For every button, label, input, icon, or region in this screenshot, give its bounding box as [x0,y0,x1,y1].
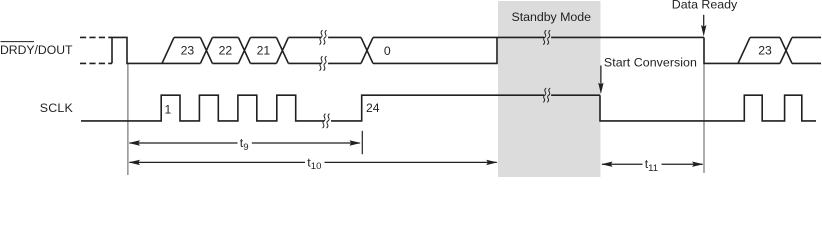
svg-text:t9: t9 [240,136,249,153]
standby mode shaded region [498,1,601,177]
data cell boundary X (23/22 second frame) [780,37,792,63]
svg-text:t10: t10 [307,155,321,172]
data cell 22 [212,37,238,63]
DRDY pulse and low wire [112,37,200,63]
break mark on SCLK low wire [323,114,330,128]
svg-text:24: 24 [366,101,380,115]
data cell 23 left slant [162,37,200,63]
data cell 23 (second frame) [738,37,780,63]
break mark on DRDY high wire [543,30,550,44]
svg-text:t11: t11 [645,157,658,174]
open data cell to edge [792,37,821,63]
t9 terminator tick at SCLK rise 24 [361,131,363,154]
t11 dimension arrow [601,162,703,167]
svg-text:0: 0 [384,44,391,58]
svg-text:Standby Mode: Standby Mode [512,10,592,24]
svg-text:21: 21 [257,44,271,58]
long data cell with break gaps [288,37,361,63]
data ready pointer arrow [701,15,706,37]
SCLK clock 24 rise and high wire into standby [331,95,600,121]
DRDY high wire through standby with break gap [497,36,704,38]
node guide line at DRDY fall (t9/t10 start) [127,63,129,175]
svg-text:Data Ready: Data Ready [672,0,738,12]
data cell boundary X (.../0) [361,37,373,63]
break mark on long cell top line [320,30,327,44]
svg-text:1: 1 [165,103,172,117]
break mark on long cell bottom line [320,56,327,70]
data cell 21 [250,37,276,63]
start conversion pointer arrow [598,66,603,95]
SCLK waveform left: clocks 1-4 and break [81,95,324,121]
svg-text:22: 22 [219,44,233,58]
svg-text:SCLK: SCLK [40,101,74,115]
svg-text:Start Conversion: Start Conversion [604,56,697,70]
break mark on SCLK high wire [543,88,550,102]
DRDY falling edge at Data Ready [704,37,738,63]
data cell 0 with closing edge [373,37,497,63]
t9 dimension arrow [129,140,361,145]
signal label DRDY/DOUT with overline on DRDY [0,42,73,57]
DRDY prior-state dashed lines [80,37,112,63]
svg-text:23: 23 [181,44,195,58]
svg-text:23: 23 [758,44,772,58]
SCLK fall at start conversion and right clocks [600,95,816,121]
svg-text:DRDY/DOUT: DRDY/DOUT [0,43,73,57]
node guide line at Data Ready (t11 end) [703,63,705,173]
data cell boundary X (22/21) [238,37,250,63]
data cell boundary X (23/22) [200,37,212,63]
t10 dimension arrow [129,160,498,165]
data cell boundary X (21/...) [276,37,288,63]
